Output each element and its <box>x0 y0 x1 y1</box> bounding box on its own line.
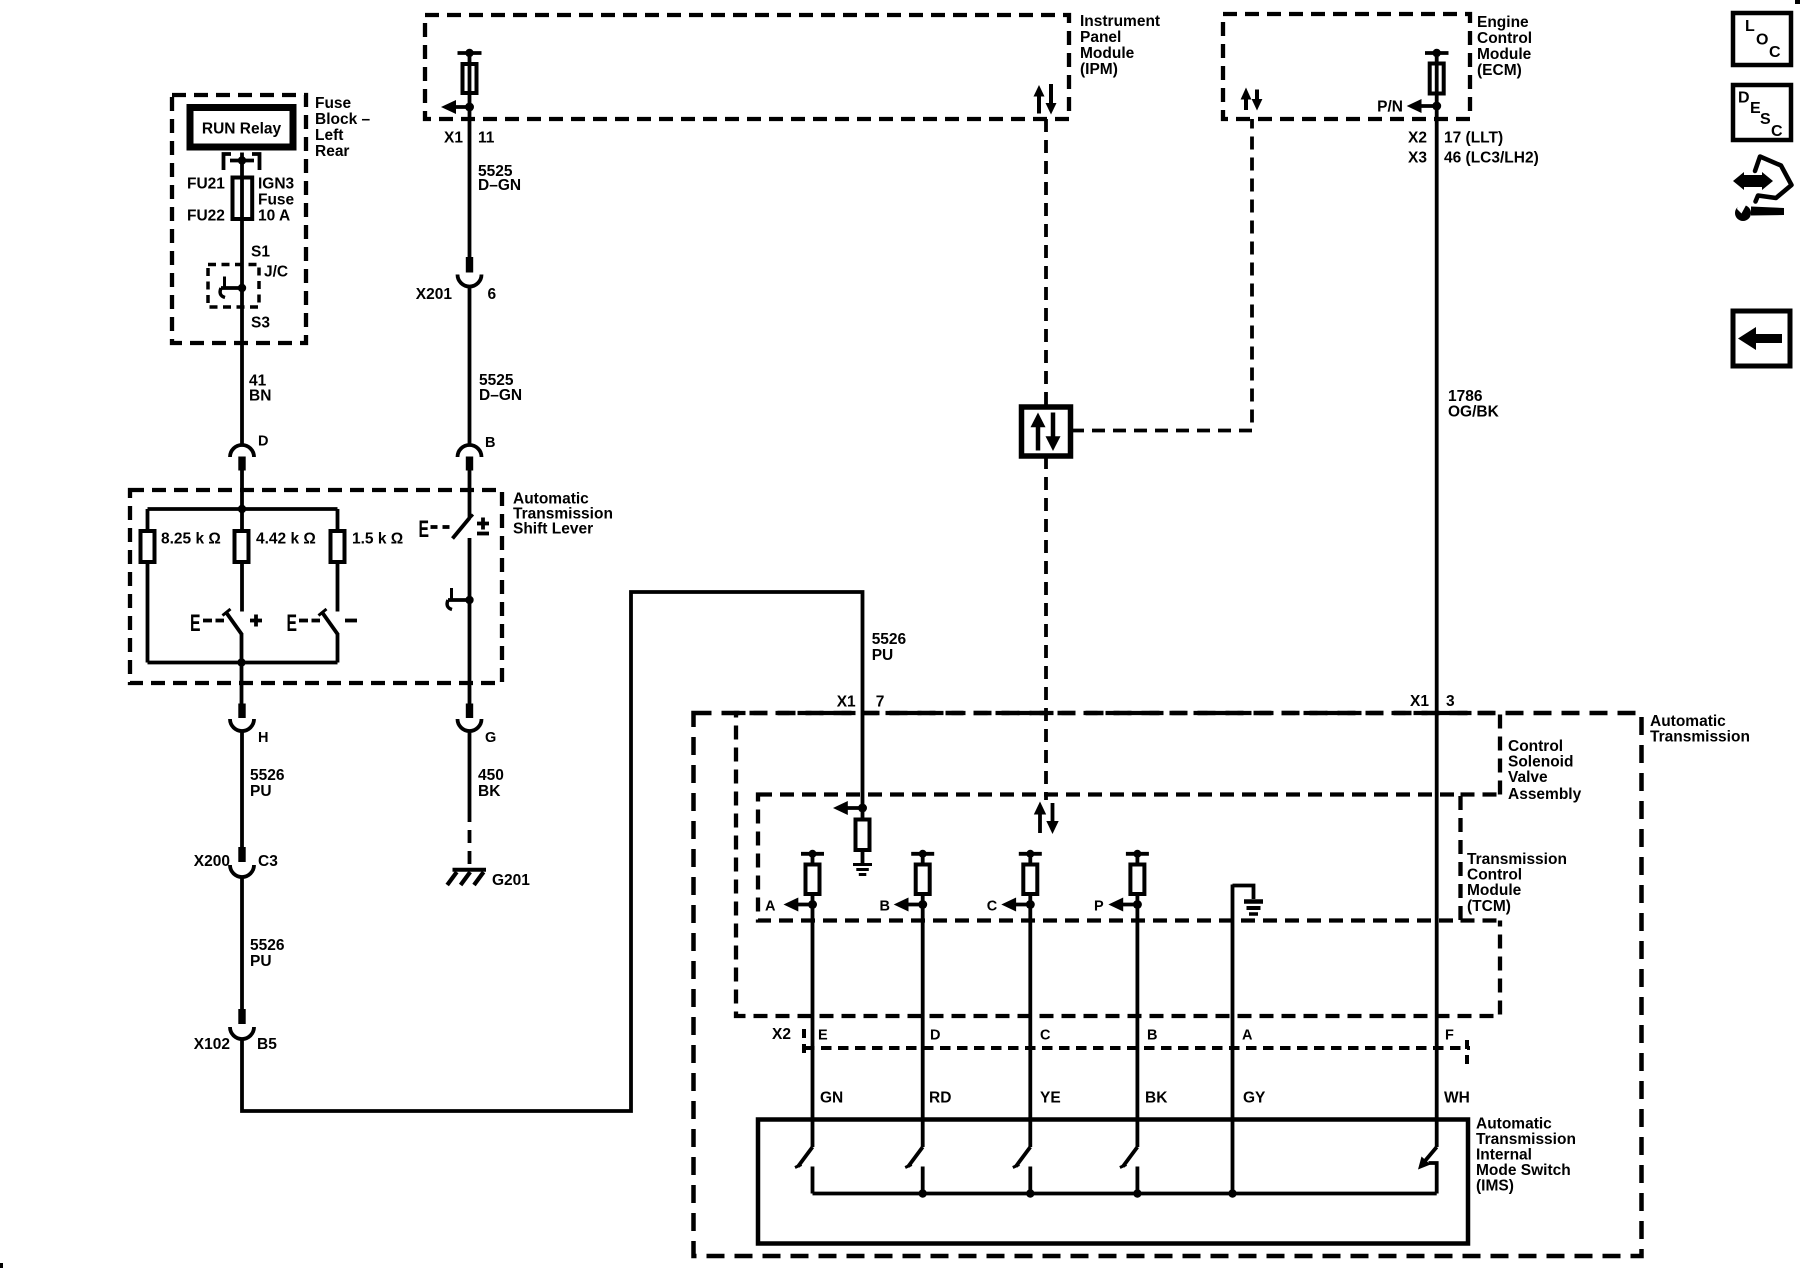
serial data junction box <box>1022 407 1071 456</box>
IMS switch E <box>795 1147 813 1194</box>
connector X2 line <box>772 1026 1470 1064</box>
svg-text:X3: X3 <box>1408 150 1427 167</box>
label: Fuse Block - Left Rear <box>315 95 371 160</box>
wire inside ECM <box>1435 53 1439 119</box>
svg-text:Control: Control <box>1467 867 1522 884</box>
svg-text:Transmission: Transmission <box>1467 851 1567 868</box>
wire B into shift lever <box>468 471 472 519</box>
svg-text:Transmission: Transmission <box>1650 729 1750 746</box>
svg-text:A: A <box>1242 1028 1253 1044</box>
node: TCM input junction <box>858 804 867 813</box>
svg-text:GY: GY <box>1243 1090 1266 1107</box>
svg-text:Transmission: Transmission <box>1476 1131 1576 1148</box>
dashed serial data wire from IPM <box>1044 119 1048 407</box>
svg-text:4.42 k Ω: 4.42 k Ω <box>256 531 316 548</box>
automatic transmission shift lever dashed box <box>130 490 502 683</box>
relay: RUN Relay <box>190 108 293 148</box>
svg-text:D–GN: D–GN <box>478 177 521 194</box>
svg-text:X2: X2 <box>772 1026 791 1043</box>
solenoid driver B <box>911 850 934 894</box>
svg-text:S3: S3 <box>251 315 270 332</box>
resistor 1.5 k ohm <box>331 531 345 562</box>
svg-text:B5: B5 <box>257 1036 277 1053</box>
node + arrow pin A <box>765 898 817 915</box>
svg-text:X102: X102 <box>194 1036 230 1053</box>
label 450 BK <box>478 767 504 800</box>
svg-text:Fuse: Fuse <box>315 95 352 112</box>
wire middle branch upper <box>240 509 244 612</box>
switch: tap-up (+) <box>190 609 262 637</box>
svg-text:Panel: Panel <box>1080 29 1121 46</box>
svg-text:E: E <box>419 516 430 543</box>
label 5526 PU <box>250 937 285 970</box>
svg-text:S1: S1 <box>251 244 270 261</box>
svg-text:7: 7 <box>876 694 885 711</box>
svg-text:FU22: FU22 <box>187 208 225 225</box>
svg-text:D: D <box>258 434 268 450</box>
svg-text:Instrument: Instrument <box>1080 13 1160 30</box>
switch: tap-down (-) <box>287 609 358 637</box>
solenoid driver P <box>1126 850 1149 894</box>
fuse inside IPM <box>463 64 477 93</box>
svg-text:PU: PU <box>872 647 894 664</box>
svg-text:Module: Module <box>1477 46 1532 63</box>
svg-text:B: B <box>485 435 495 451</box>
wire 5525 D-GN upper <box>468 107 472 257</box>
IPM internal supply bar <box>458 49 482 57</box>
ground (TCM internal) <box>853 865 872 875</box>
svg-text:X1: X1 <box>1410 693 1429 710</box>
svg-text:1.5 k Ω: 1.5 k Ω <box>352 531 403 548</box>
fuse block - left rear (dashed box) <box>172 95 306 343</box>
svg-text:L: L <box>1745 18 1755 35</box>
node: bottom rail junction <box>237 658 245 666</box>
instrument panel module (IPM) dashed box <box>425 15 1069 119</box>
svg-text:BK: BK <box>478 783 501 800</box>
svg-text:Control: Control <box>1508 738 1563 755</box>
svg-text:G201: G201 <box>492 872 530 889</box>
svg-text:X200: X200 <box>194 853 230 870</box>
wire out of shift lever <box>240 663 244 704</box>
svg-text:PU: PU <box>250 953 272 970</box>
label X2 17 (LLT) <box>1408 130 1503 147</box>
svg-text:Assembly: Assembly <box>1508 786 1582 803</box>
in-line connector X200 pin C3 <box>194 847 278 877</box>
connector B (shift lever pin B) <box>458 435 496 471</box>
in-line connector X102 pin B5 <box>194 1009 277 1053</box>
svg-text:PU: PU <box>250 783 272 800</box>
svg-text:G: G <box>485 730 496 746</box>
svg-text:S: S <box>1760 111 1771 128</box>
junction connector J/C dashed box <box>208 265 259 308</box>
X2 pin letters <box>818 1028 1454 1044</box>
dashed serial data wire to transmission <box>1044 456 1048 800</box>
svg-text:E: E <box>190 610 201 637</box>
svg-text:X2: X2 <box>1408 130 1427 147</box>
label X3 46 (LC3/LH2) <box>1408 150 1539 167</box>
node: P/N output junction <box>1432 102 1441 111</box>
engine control module (ECM) dashed box <box>1223 14 1470 119</box>
solenoid driver C <box>1019 850 1042 894</box>
wire below - switch <box>336 633 340 663</box>
label 1786 OG/BK <box>1448 388 1500 421</box>
wire route from X102 to TCM X1-7 <box>242 592 863 1111</box>
ECM internal supply bar <box>1425 49 1449 57</box>
wire inside IPM <box>468 53 472 107</box>
label: Automatic Transmission <box>1650 713 1750 746</box>
label X1 3 <box>1410 693 1455 710</box>
svg-text:RD: RD <box>929 1090 951 1107</box>
svg-text:E: E <box>287 610 298 637</box>
svg-text:F: F <box>1445 1028 1454 1044</box>
wire 450 BK <box>468 730 472 809</box>
arrow: P/N output <box>1377 99 1437 116</box>
label 5526 PU (TCM feed) <box>872 631 907 664</box>
svg-text:Rear: Rear <box>315 143 349 160</box>
label: Control Solenoid Valve Assembly <box>1508 738 1582 803</box>
node + arrow pin P <box>1094 898 1142 915</box>
svg-text:Left: Left <box>315 127 343 144</box>
connector H (shift lever pin H) <box>230 704 268 747</box>
svg-text:C: C <box>987 899 998 915</box>
label: Transmission Control Module (TCM) <box>1467 851 1567 915</box>
svg-text:A: A <box>765 899 776 915</box>
resistor 8.25 k ohm <box>141 531 155 562</box>
label: Automatic Transmission Shift Lever <box>513 491 613 538</box>
svg-text:Fuse: Fuse <box>258 192 295 209</box>
wire 5526 PU (upper) <box>240 730 244 847</box>
svg-text:450: 450 <box>478 767 504 784</box>
dashed serial data wire to ECM <box>1071 119 1252 431</box>
svg-text:(IPM): (IPM) <box>1080 61 1118 78</box>
DESC icon box <box>1733 85 1791 140</box>
svg-text:6: 6 <box>488 286 497 303</box>
svg-text:C3: C3 <box>258 853 278 870</box>
IMS switch D <box>905 1147 927 1198</box>
svg-text:GN: GN <box>820 1090 843 1107</box>
svg-text:46 (LC3/LH2): 46 (LC3/LH2) <box>1444 150 1539 167</box>
label 5525 D-GN <box>478 163 521 194</box>
wire through fuse block <box>240 161 244 446</box>
svg-text:Shift Lever: Shift Lever <box>513 521 593 538</box>
svg-text:RUN Relay: RUN Relay <box>202 121 282 138</box>
svg-text:Block –: Block – <box>315 111 371 128</box>
transmission control module (TCM) dashed box <box>758 795 1461 921</box>
LOC icon box <box>1733 13 1791 65</box>
automatic transmission dashed box <box>694 713 1642 1256</box>
fuse holder clips <box>224 153 260 171</box>
wire solenoid P to IMS <box>1136 894 1140 1147</box>
page corner marks <box>1795 0 1800 4</box>
solenoid driver A <box>801 850 824 894</box>
svg-text:X1: X1 <box>837 694 856 711</box>
IMS common bus <box>813 1192 1437 1196</box>
fix-it / jump icon (double arrow, sketch outline, wrench) <box>1733 157 1792 222</box>
wire below + switch <box>240 633 244 663</box>
svg-text:D: D <box>930 1028 940 1044</box>
svg-text:Internal: Internal <box>1476 1147 1532 1164</box>
wire 5526 PU (lower) <box>240 876 244 1009</box>
serial data arrows in TCM <box>1034 802 1059 835</box>
svg-text:10 A: 10 A <box>258 208 290 225</box>
node: rail junction <box>238 505 246 513</box>
wire left branch <box>146 509 150 663</box>
svg-text:P/N: P/N <box>1377 99 1403 116</box>
svg-text:FU21: FU21 <box>187 176 225 193</box>
svg-text:X201: X201 <box>416 286 453 303</box>
svg-text:Control: Control <box>1477 30 1532 47</box>
svg-text:Automatic: Automatic <box>1650 713 1726 730</box>
automatic transmission internal mode switch (IMS) box <box>758 1120 1468 1244</box>
svg-text:H: H <box>258 730 268 746</box>
svg-text:Module: Module <box>1080 45 1135 62</box>
arrow: TCM input <box>833 801 863 815</box>
resistor 4.42 k ohm <box>235 531 249 562</box>
wire 41 BN label <box>249 373 271 405</box>
svg-text:P: P <box>1094 899 1104 915</box>
svg-text:11: 11 <box>478 130 495 147</box>
serial data arrows in IPM <box>1034 84 1057 115</box>
IMS ground reference wire GY <box>1231 885 1235 1194</box>
dashed ground lead <box>468 809 472 868</box>
arrow: IPM output to left <box>441 100 470 114</box>
pull-up resistor in TCM <box>856 808 870 864</box>
splice S1/S3 symbol <box>220 277 246 298</box>
switch: shift lever +/- enable <box>419 515 490 544</box>
svg-text:X1: X1 <box>444 130 463 147</box>
svg-text:5526: 5526 <box>250 937 285 954</box>
svg-text:(TCM): (TCM) <box>1467 898 1511 915</box>
svg-text:1786: 1786 <box>1448 388 1483 405</box>
label X1 7 <box>837 694 885 711</box>
svg-text:B: B <box>880 899 890 915</box>
svg-text:WH: WH <box>1444 1090 1470 1107</box>
wire solenoid C to IMS <box>1028 894 1032 1147</box>
fuse FU21/FU22 IGN3 10 A <box>233 178 253 220</box>
wire solenoid A to IMS <box>811 894 815 1147</box>
svg-text:OG/BK: OG/BK <box>1448 404 1500 421</box>
connector D (shift lever pin D) <box>230 434 268 471</box>
svg-text:5526: 5526 <box>250 767 285 784</box>
node: IPM output junction <box>465 103 474 112</box>
svg-text:D: D <box>1738 90 1750 107</box>
svg-text:17 (LLT): 17 (LLT) <box>1444 130 1503 147</box>
label: Automatic Transmission Internal Mode Switch (IMS) <box>1476 1116 1576 1195</box>
svg-text:Engine: Engine <box>1477 14 1529 31</box>
IMS switch B <box>1120 1147 1142 1198</box>
svg-text:C: C <box>1769 44 1781 61</box>
back-arrow icon box <box>1733 311 1790 366</box>
node: fuse top junction <box>238 156 246 164</box>
wire below +/- switch <box>468 538 472 704</box>
svg-text:D–GN: D–GN <box>479 387 522 404</box>
svg-text:B: B <box>1147 1028 1157 1044</box>
svg-text:Solenoid: Solenoid <box>1508 754 1573 771</box>
svg-text:J/C: J/C <box>264 264 288 281</box>
svg-text:YE: YE <box>1040 1090 1061 1107</box>
wire 5525 D-GN lower <box>468 286 472 446</box>
svg-text:(ECM): (ECM) <box>1477 62 1522 79</box>
svg-text:Automatic: Automatic <box>1476 1116 1552 1133</box>
connector G (shift lever pin G) <box>458 704 497 747</box>
fuse inside ECM <box>1430 64 1444 94</box>
node + arrow pin C <box>987 898 1035 915</box>
svg-text:BN: BN <box>249 388 271 405</box>
node + arrow pin B <box>880 898 928 915</box>
svg-text:3: 3 <box>1446 693 1455 710</box>
TCM box tie lines <box>1461 795 1501 921</box>
chassis ground (TCM) <box>1233 886 1264 915</box>
label X1 11 <box>444 130 495 147</box>
wire right branch upper <box>336 509 340 612</box>
wire D into box <box>240 471 244 510</box>
label 5525 D-GN <box>479 372 522 404</box>
wire solenoid B to IMS <box>921 894 925 1147</box>
label: Engine Control Module (ECM) <box>1477 14 1532 79</box>
label 5526 PU <box>250 767 285 800</box>
label: Instrument Panel Module (IPM) <box>1080 13 1160 78</box>
svg-text:Mode Switch: Mode Switch <box>1476 1162 1571 1179</box>
wire color labels <box>820 1090 1470 1107</box>
in-line connector X201 pin 6 <box>416 257 497 303</box>
node: GY wire to bus <box>1228 1189 1236 1197</box>
serial data arrows in ECM <box>1241 88 1263 111</box>
control solenoid valve assembly dashed outline <box>736 713 1500 1016</box>
label IGN3 Fuse 10 A <box>258 176 295 225</box>
IMS wiper switch F <box>1418 1147 1437 1194</box>
svg-text:C: C <box>1771 123 1783 140</box>
arrows in junction box <box>1031 413 1061 452</box>
wire 1786 OG/BK <box>1435 119 1439 1147</box>
svg-text:C: C <box>1040 1028 1051 1044</box>
wire: bottom rail in shift lever <box>148 661 338 665</box>
splice/detent contact symbol <box>447 588 474 610</box>
IMS switch C <box>1013 1147 1035 1198</box>
svg-text:E: E <box>818 1028 828 1044</box>
svg-text:8.25 k Ω: 8.25 k Ω <box>161 531 221 548</box>
svg-text:Valve: Valve <box>1508 769 1548 786</box>
svg-text:Module: Module <box>1467 882 1522 899</box>
ground G201 <box>447 870 530 889</box>
svg-text:BK: BK <box>1145 1090 1168 1107</box>
svg-text:(IMS): (IMS) <box>1476 1178 1514 1195</box>
svg-text:5526: 5526 <box>872 631 907 648</box>
svg-text:IGN3: IGN3 <box>258 176 295 193</box>
svg-text:O: O <box>1756 32 1768 49</box>
wire: top rail in shift lever <box>148 507 338 511</box>
